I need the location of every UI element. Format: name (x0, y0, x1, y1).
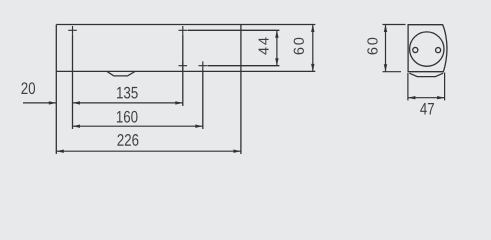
plate bottom edge with extension to 60-dim (56, 70, 315, 72)
hole cross mark bottom-middle (179, 61, 188, 70)
dimension 60 (vertical, side view) (367, 25, 405, 72)
dimension 160 (73, 111, 203, 128)
hole column 1 extension line (72, 35, 74, 129)
hole cross mark top-left (68, 26, 77, 35)
hole cross mark bottom-right (199, 61, 208, 70)
top hole row extension line (188, 29, 280, 31)
plate right edge extended down to 226-dim (240, 25, 242, 155)
dimension 60 (vertical, main view) (294, 25, 315, 72)
hole cross mark top-right (179, 26, 188, 35)
chin bump below plate (front view) (107, 71, 135, 76)
side view right hole (436, 48, 441, 53)
plate left edge extended down to 226-dim (55, 25, 57, 155)
dimension 226 (56, 134, 241, 153)
side view left hole (413, 47, 418, 52)
dimension 47 (side view) (408, 73, 445, 115)
hole column 3 extension line (202, 70, 204, 129)
side view face circle (410, 32, 444, 66)
side view body outline (408, 25, 447, 72)
dimension 20 (21, 82, 56, 104)
bottom hole row extension line (208, 65, 280, 67)
dimension 44 (vertical) (259, 30, 279, 65)
dimension 135 (73, 87, 183, 105)
hole column 2 extension line (182, 35, 184, 106)
plate top edge with extension to 60-dim (56, 24, 315, 26)
side view chin bump (409, 73, 443, 76)
